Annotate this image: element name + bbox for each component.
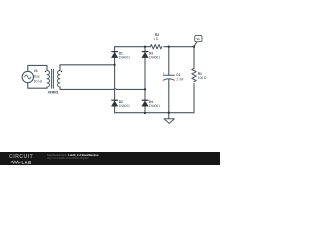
transformer polarity dot primary [45,71,47,73]
CircuitLab logo text CIRCUIT [9,154,33,160]
sine symbol inside V1 [25,75,31,79]
footer bar [0,152,220,165]
top rail wire with resistor gap [115,46,194,48]
node: secondary bottom / right branch [144,88,146,90]
node: top rail / C1 [168,46,170,48]
voltage source V1 [22,71,33,82]
CircuitLab logo resistor squiggle [0,0,220,165]
wire V1 top to transformer primary top [28,65,47,71]
capacitor C1 bottom curved plate [163,79,174,80]
wire transformer secondary top to bridge left branch [60,65,115,71]
resistor R3 zigzag [150,45,161,49]
ground symbol triangle [164,119,174,124]
footer line 2 url [47,157,89,160]
CircuitLab logo LAB badge [22,160,32,165]
capacitor C1 branch top lead [168,47,170,75]
wire transformer secondary bottom to bridge right branch (crosses left branch) [60,87,145,89]
wire V1 bottom to transformer primary bottom [28,83,47,89]
diode D2 [111,100,118,106]
resistor R1 bottom lead [193,84,195,113]
diode D3 [142,52,149,58]
transformer XFMR1 secondary winding [57,71,60,88]
transformer core lines [52,69,54,88]
wire hop crossover at left branch [114,87,117,90]
node: bottom rail / ground [168,112,170,114]
footer line 1 title [47,154,99,157]
resistor R1 branch top lead [193,47,195,69]
Vo flag stub [194,42,197,47]
node: bottom rail / right branch [144,112,146,114]
junction node dots [113,46,195,115]
bottom rail wire [115,112,194,114]
transformer XFMR1 primary winding [47,71,50,88]
bridge right branch vertical wire [144,47,146,113]
Vo flag box [195,35,202,41]
transformer polarity dot secondary [61,71,63,73]
diode D4 [142,100,149,106]
capacitor C1 top plate [163,74,174,76]
node: top rail / right branch [144,46,146,48]
node: top rail corner / Vo [193,46,195,48]
capacitor C1 bottom lead [168,79,170,112]
ground symbol stub [168,113,170,119]
diode D1 [111,52,118,58]
resistor R1 zigzag [192,68,196,81]
node: secondary top / left branch [113,64,115,66]
bridge left branch vertical wire [114,47,116,113]
